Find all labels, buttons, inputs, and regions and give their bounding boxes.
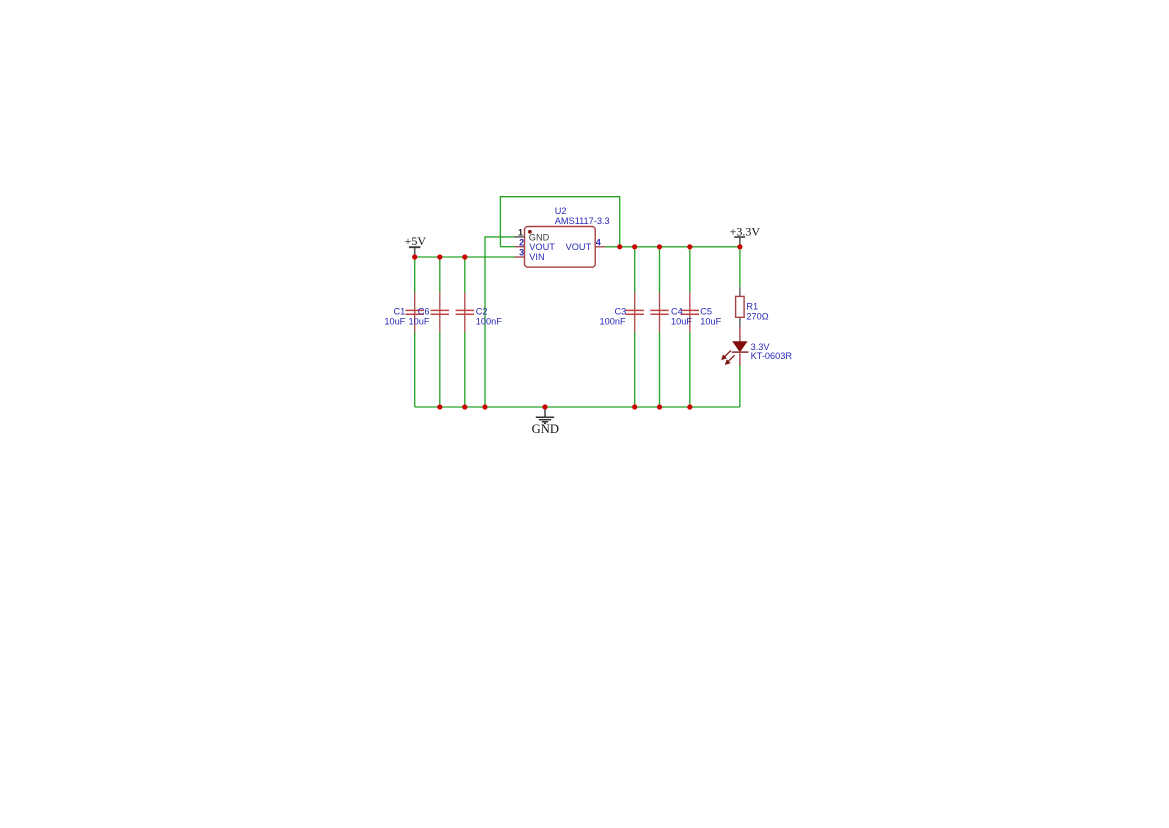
svg-text:1: 1	[518, 227, 523, 237]
svg-text:10uF: 10uF	[700, 316, 721, 326]
svg-text:2: 2	[519, 237, 524, 247]
svg-text:VOUT: VOUT	[566, 242, 592, 252]
svg-text:C1: C1	[394, 306, 406, 316]
svg-text:AMS1117-3.3: AMS1117-3.3	[555, 216, 610, 226]
svg-text:4: 4	[596, 237, 601, 247]
svg-text:10uF: 10uF	[671, 316, 692, 326]
svg-text:U2: U2	[555, 206, 567, 216]
svg-text:100nF: 100nF	[600, 316, 626, 326]
svg-text:VOUT: VOUT	[529, 242, 555, 252]
svg-text:C4: C4	[671, 306, 683, 316]
svg-text:+3.3V: +3.3V	[730, 224, 761, 238]
svg-text:270Ω: 270Ω	[746, 311, 768, 321]
svg-text:+5V: +5V	[405, 234, 427, 248]
svg-text:GND: GND	[529, 232, 550, 242]
svg-text:10uF: 10uF	[384, 316, 405, 326]
svg-text:R1: R1	[746, 301, 758, 311]
svg-text:100nF: 100nF	[476, 316, 502, 326]
svg-text:GND: GND	[532, 422, 559, 436]
svg-text:C6: C6	[418, 306, 430, 316]
svg-text:C2: C2	[476, 306, 488, 316]
svg-text:3: 3	[519, 248, 524, 258]
svg-text:C3: C3	[614, 306, 626, 316]
svg-text:KT-0603R: KT-0603R	[751, 351, 793, 361]
svg-text:10uF: 10uF	[409, 316, 430, 326]
svg-text:C5: C5	[700, 306, 712, 316]
svg-text:VIN: VIN	[529, 252, 544, 262]
